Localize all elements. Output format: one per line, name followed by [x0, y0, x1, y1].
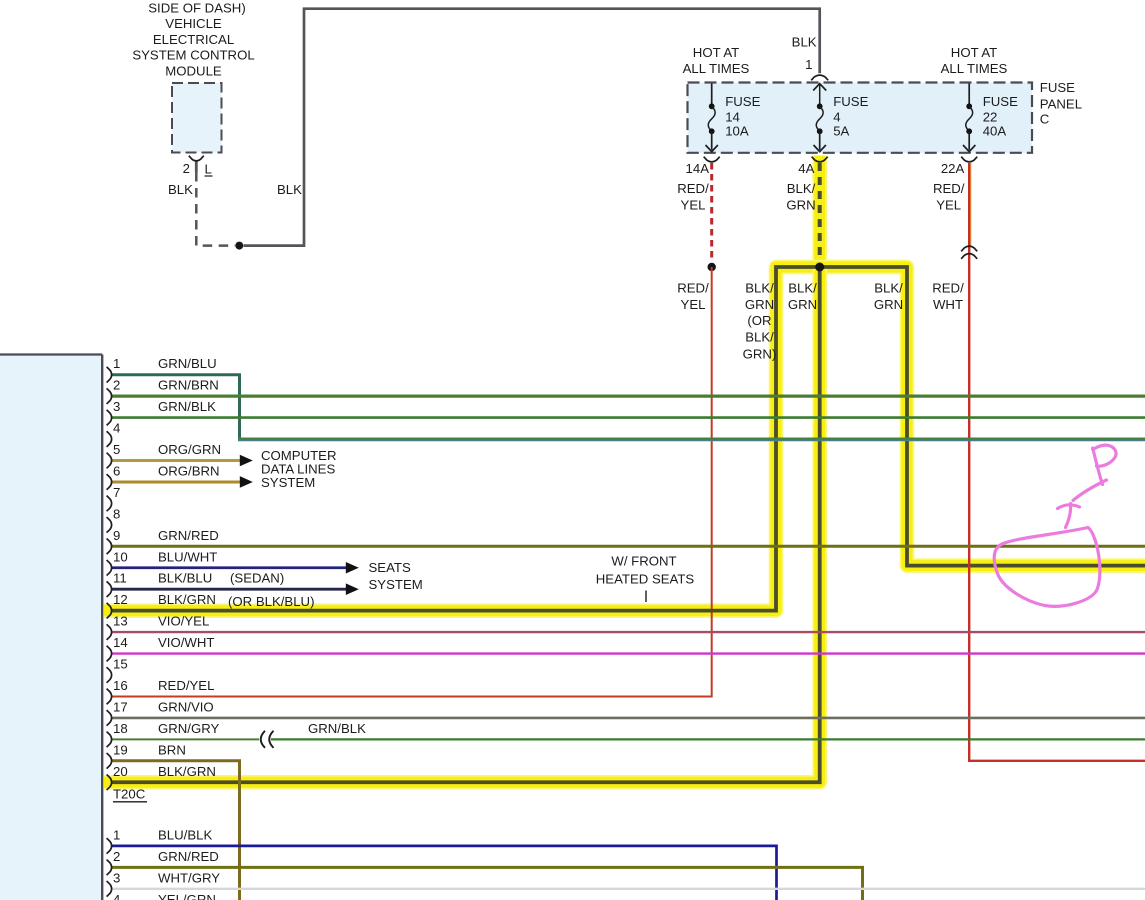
svg-text:ORG/GRN: ORG/GRN	[158, 442, 221, 457]
wire BLK/GRN junction bar to left+right branches (highlighted)	[112, 267, 1145, 611]
arrow to seats system (pin 11)	[346, 583, 359, 595]
wire WHT/GRY pin 3 (lower connector)	[112, 888, 1145, 890]
fuse 4 output cavity 4A	[812, 157, 828, 162]
svg-text:HEATED SEATS: HEATED SEATS	[596, 571, 695, 586]
svg-text:RED/: RED/	[677, 181, 709, 196]
highlighter band: junction bar + left branch + row12 run	[104, 267, 1145, 611]
svg-text:FUSE: FUSE	[833, 94, 868, 109]
svg-text:SIDE OF DASH): SIDE OF DASH)	[148, 1, 245, 16]
svg-text:W/ FRONT: W/ FRONT	[611, 553, 676, 568]
svg-text:WHT: WHT	[933, 297, 963, 312]
svg-text:FUSE: FUSE	[725, 94, 760, 109]
svg-text:GRN/RED: GRN/RED	[158, 849, 219, 864]
svg-text:YEL: YEL	[936, 197, 961, 212]
svg-text:YEL: YEL	[681, 197, 706, 212]
svg-text:GRN: GRN	[745, 297, 774, 312]
svg-text:SEATS: SEATS	[369, 560, 411, 575]
svg-text:BLU/WHT: BLU/WHT	[158, 549, 217, 564]
svg-text:L: L	[205, 161, 212, 176]
pin 20 cavity (upper connector)	[107, 774, 112, 790]
svg-text:VIO/YEL: VIO/YEL	[158, 614, 209, 629]
svg-text:15: 15	[113, 657, 128, 672]
wire RED/YEL then RED/WHT from fuse 22	[970, 163, 972, 246]
wire GRN/RED pin 2 (lower connector)	[112, 867, 863, 900]
svg-text:19: 19	[113, 742, 128, 757]
svg-text:2: 2	[113, 378, 120, 393]
svg-text:BLK/: BLK/	[745, 281, 774, 296]
svg-text:SYSTEM: SYSTEM	[261, 475, 315, 490]
pin 1 cavity (lower connector)	[107, 838, 112, 854]
wire GRN/RED pin 9	[112, 545, 1145, 548]
svg-text:17: 17	[113, 699, 128, 714]
svg-text:3: 3	[113, 870, 120, 885]
wire GRN/BRN pin 2	[112, 395, 1145, 398]
wire GRN/BLU pin 1	[112, 375, 240, 441]
svg-text:5A: 5A	[833, 124, 849, 139]
pin 1 cavity (upper connector)	[107, 367, 112, 383]
wire VIO/YEL pin 13	[112, 631, 1145, 633]
svg-text:BLK/: BLK/	[874, 281, 903, 296]
svg-text:FUSE: FUSE	[1040, 80, 1075, 95]
wire BLU/WHT pin 10	[112, 566, 346, 569]
svg-text:BLU/BLK: BLU/BLK	[158, 827, 212, 842]
connector cavity 1 at fuse panel entry	[811, 75, 828, 80]
svg-text:C: C	[1040, 112, 1050, 127]
arrow to computer data lines system (pin 6)	[240, 476, 253, 488]
svg-text:BLK: BLK	[277, 182, 302, 197]
svg-text:HOT AT: HOT AT	[951, 45, 997, 60]
svg-text:ALL TIMES: ALL TIMES	[683, 61, 750, 76]
svg-text:BLK: BLK	[168, 182, 193, 197]
svg-text:14: 14	[725, 110, 740, 125]
hand-drawn annotation P	[1093, 448, 1103, 485]
pin 12 cavity (upper connector)	[107, 603, 112, 619]
wire RED/YEL dashed from fuse 14	[710, 163, 713, 262]
pin 4 cavity (upper connector)	[107, 431, 112, 447]
svg-text:FUSE: FUSE	[983, 94, 1018, 109]
wire BLU/BLK pin 1 (lower connector)	[112, 846, 777, 900]
in-line connector on pin 18 wire	[261, 731, 265, 748]
vehicle electrical system control module box	[172, 83, 222, 153]
fuse 4 5A	[813, 84, 868, 152]
wire RED/YEL solid from splice down to pin 16	[112, 267, 712, 696]
svg-text:11: 11	[113, 571, 127, 586]
splice on BLK wire	[235, 242, 243, 250]
svg-text:9: 9	[113, 528, 120, 543]
wire ORG/BRN pin 6	[112, 480, 240, 483]
svg-text:MODULE: MODULE	[165, 63, 222, 78]
svg-text:SYSTEM: SYSTEM	[369, 577, 423, 592]
pin 9 cavity (upper connector)	[107, 539, 112, 555]
wire BLK dashed from module to splice	[196, 172, 235, 246]
pin 3 cavity (upper connector)	[107, 410, 112, 426]
svg-text:BLK/: BLK/	[787, 181, 816, 196]
wire BLK stub below module pin L	[195, 161, 198, 172]
svg-text:GRN/BLU: GRN/BLU	[158, 356, 217, 371]
svg-text:VIO/WHT: VIO/WHT	[158, 635, 214, 650]
splice on BLK/GRN wire	[815, 263, 824, 272]
svg-text:3: 3	[113, 399, 120, 414]
svg-text:GRN/BLK: GRN/BLK	[308, 721, 366, 736]
svg-text:GRN/VIO: GRN/VIO	[158, 699, 214, 714]
svg-text:BLK/GRN: BLK/GRN	[158, 592, 216, 607]
svg-text:40A: 40A	[983, 124, 1007, 139]
svg-text:7: 7	[113, 485, 120, 500]
svg-text:PANEL: PANEL	[1040, 97, 1082, 112]
svg-text:10: 10	[113, 549, 128, 564]
fuse 22 output cavity 22A	[961, 157, 977, 162]
svg-text:RED/: RED/	[933, 181, 965, 196]
pin 17 cavity (upper connector)	[107, 710, 112, 726]
arrow to seats system (pin 10)	[346, 562, 359, 574]
svg-text:HOT AT: HOT AT	[693, 45, 739, 60]
pin 2 cavity (lower connector)	[107, 860, 112, 876]
fuse 14 output cavity 14A	[704, 157, 720, 162]
svg-text:ORG/BRN: ORG/BRN	[158, 463, 220, 478]
svg-text:(OR: (OR	[747, 313, 771, 328]
wire BLK/GRN dashed from fuse 4 (highlighted)	[818, 163, 822, 260]
svg-text:22: 22	[983, 110, 998, 125]
pin 15 cavity (upper connector)	[107, 667, 112, 683]
svg-text:RED/YEL: RED/YEL	[158, 678, 214, 693]
svg-text:RED/: RED/	[932, 281, 964, 296]
svg-text:GRN/BRN: GRN/BRN	[158, 378, 219, 393]
highlighter band: fuse4 dashed drop	[812, 156, 827, 268]
svg-text:BLK/: BLK/	[745, 330, 774, 345]
svg-text:1: 1	[113, 827, 120, 842]
svg-text:GRN: GRN	[788, 297, 817, 312]
svg-text:WHT/GRY: WHT/GRY	[158, 870, 220, 885]
svg-text:(SEDAN): (SEDAN)	[230, 571, 284, 586]
pin 14 cavity (upper connector)	[107, 646, 112, 662]
svg-text:1: 1	[805, 57, 812, 72]
pin 8 cavity (upper connector)	[107, 517, 112, 533]
fuse 14 10A	[706, 84, 761, 152]
svg-text:GRN: GRN	[874, 297, 903, 312]
svg-text:4: 4	[113, 421, 120, 436]
svg-text:RED/: RED/	[677, 281, 709, 296]
connector block T20C (left instrument-panel connector)	[0, 355, 102, 900]
svg-text:GRN/BLK: GRN/BLK	[158, 399, 216, 414]
svg-text:4: 4	[833, 110, 840, 125]
pin 10 cavity (upper connector)	[107, 560, 112, 576]
svg-text:BLK: BLK	[792, 34, 817, 49]
svg-text:YEL: YEL	[681, 297, 706, 312]
wire BLK solid from splice up over to fuse panel pin 1	[244, 9, 820, 246]
wire BRN pin 19	[112, 761, 240, 900]
pin 11 cavity (upper connector)	[107, 581, 112, 597]
svg-text:(OR BLK/BLU): (OR BLK/BLU)	[228, 594, 314, 609]
svg-text:GRN/GRY: GRN/GRY	[158, 721, 220, 736]
wire GRN/BLK right of in-line connector	[271, 738, 1145, 740]
svg-text:2: 2	[113, 849, 120, 864]
svg-text:SYSTEM CONTROL: SYSTEM CONTROL	[132, 48, 254, 63]
svg-text:VEHICLE: VEHICLE	[165, 16, 222, 31]
svg-text:5: 5	[113, 442, 120, 457]
svg-text:GRN): GRN)	[743, 346, 777, 361]
svg-text:8: 8	[113, 506, 120, 521]
hand-drawn annotation T	[1058, 505, 1080, 509]
highlighter band: center drop to row20 run	[104, 267, 820, 782]
in-line connector upper half on RED wire	[961, 246, 977, 251]
fuse 22 40A	[963, 84, 1018, 152]
module pin L cavity	[189, 156, 204, 161]
svg-text:GRN: GRN	[786, 197, 815, 212]
svg-text:GRN/RED: GRN/RED	[158, 528, 219, 543]
svg-text:BRN: BRN	[158, 742, 186, 757]
wire GRN/VIO pin 17	[112, 717, 1145, 720]
pin 6 cavity (upper connector)	[107, 474, 112, 490]
splice on RED/YEL wire	[708, 263, 716, 271]
svg-text:13: 13	[113, 614, 128, 629]
svg-text:BLK/GRN: BLK/GRN	[158, 764, 216, 779]
pin 7 cavity (upper connector)	[107, 496, 112, 512]
svg-text:YEL/GRN: YEL/GRN	[158, 892, 216, 900]
svg-text:ALL TIMES: ALL TIMES	[941, 61, 1008, 76]
pin 13 cavity (upper connector)	[107, 624, 112, 640]
wire BLK/GRN center drop to pin 20 (highlighted)	[112, 267, 820, 782]
svg-text:12: 12	[113, 592, 128, 607]
svg-text:BLK/BLU: BLK/BLU	[158, 571, 212, 586]
fuse panel C box	[688, 83, 1033, 153]
svg-text:14A: 14A	[686, 161, 710, 176]
svg-text:10A: 10A	[725, 124, 749, 139]
svg-text:6: 6	[113, 463, 120, 478]
wire VIO/WHT pin 14	[112, 652, 1145, 654]
svg-text:1: 1	[113, 356, 120, 371]
pin 16 cavity (upper connector)	[107, 689, 112, 705]
wire GRN/GRY pin 18	[112, 738, 259, 740]
hand-drawn annotation stroke	[1073, 480, 1107, 501]
pin 5 cavity (upper connector)	[107, 453, 112, 469]
svg-text:20: 20	[113, 764, 128, 779]
svg-text:4A: 4A	[798, 161, 814, 176]
svg-text:2: 2	[183, 161, 190, 176]
in-line connector lower half on RED wire	[961, 254, 977, 259]
wire GRN/BLK pin 3	[112, 416, 1145, 419]
wire BLK/BLU pin 11	[112, 588, 346, 591]
pin 18 cavity (upper connector)	[107, 732, 112, 748]
pin 3 cavity (lower connector)	[107, 881, 112, 897]
svg-text:22A: 22A	[941, 161, 965, 176]
hand-drawn annotation loop	[994, 528, 1100, 607]
svg-text:14: 14	[113, 635, 128, 650]
svg-text:BLK/: BLK/	[788, 281, 817, 296]
arrow to computer data lines system (pin 5)	[240, 455, 253, 467]
pin 2 cavity (upper connector)	[107, 388, 112, 404]
pin 19 cavity (upper connector)	[107, 753, 112, 769]
svg-text:18: 18	[113, 721, 128, 736]
svg-text:4: 4	[113, 892, 120, 900]
svg-text:16: 16	[113, 678, 128, 693]
svg-text:T20C: T20C	[113, 786, 146, 801]
wire ORG/GRN pin 5	[112, 459, 240, 462]
svg-text:ELECTRICAL: ELECTRICAL	[153, 32, 234, 47]
